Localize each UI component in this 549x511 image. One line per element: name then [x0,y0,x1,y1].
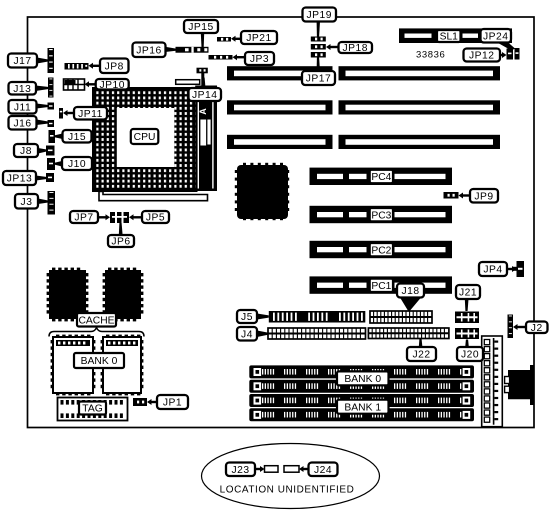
leader JP17 [317,58,320,72]
jumper JP19 strip 3 [311,52,326,58]
svg-text:JP17: JP17 [306,74,331,85]
callout J5 [237,310,257,323]
leader J16 [37,120,48,126]
callout J24 [309,463,338,477]
callout J4 [237,327,257,341]
connector J5 bar [269,311,366,323]
bar below CPU socket [99,192,208,201]
svg-text:JP5: JP5 [146,213,165,224]
cache chip right (black) [103,268,144,322]
svg-text:J20: J20 [461,350,479,361]
jumper JP9 target [444,192,459,199]
leader J10 [55,161,62,167]
callout JP4 [479,262,507,276]
leader JP12 [500,52,507,58]
leader JP3 [233,54,246,60]
PCI slot label PC4 [370,170,393,183]
connector J16 target [48,120,55,127]
svg-text:33836: 33836 [416,50,445,61]
jumper JP12/JP24 target pair [507,48,520,60]
svg-text:J10: J10 [68,159,86,170]
leader JP1 [147,399,157,405]
leader J20 [465,340,469,348]
connector J15 target [49,130,56,143]
svg-text:JP10: JP10 [99,80,124,91]
svg-text:J8: J8 [20,146,32,157]
svg-text:J3: J3 [21,197,33,208]
leader JP19 [317,22,320,37]
power connector [482,336,503,427]
callout JP19 [303,8,337,22]
callout JP13 [3,171,36,185]
svg-text:PC3: PC3 [371,210,391,221]
connector J17 target header [48,48,55,73]
ISA slot row 3 right segment [339,135,501,149]
jumper JP19 strip 1 [311,37,326,42]
leader J24 [299,466,309,472]
svg-text:J22: J22 [412,350,430,361]
connector J24 target [284,466,299,473]
connector JP13 target [46,173,54,182]
TAG chip [58,398,128,421]
svg-text:SL1: SL1 [440,32,459,43]
svg-text:JP16: JP16 [136,45,161,56]
PCI slot PC1 bar [310,276,453,293]
connector J21 header [455,312,479,324]
callout JP14 [189,88,222,101]
svg-text:BANK 1: BANK 1 [344,402,381,413]
connector J11 target [48,103,55,110]
callout JP10 [96,79,129,91]
jumper JP15/JP16 target strip [176,47,209,53]
callout JP5 [142,211,169,224]
SIMM socket row 4 [249,408,474,421]
leader JP24 [497,42,515,50]
TAG label [79,402,106,415]
leader JP11 [63,110,74,116]
CPU label [131,129,159,144]
leader J23b [255,466,265,472]
callout J20 [457,347,483,361]
svg-text:JP21: JP21 [246,33,271,44]
callout JP17 [302,71,335,85]
PCI slot label PC3 [370,208,393,221]
leader JP15 [201,33,204,47]
leader J18 [400,298,421,311]
QFP chip U2 [235,163,289,220]
svg-text:CACHE: CACHE [78,315,114,326]
callout J15 [63,130,92,143]
SRAM chip left (white) [51,335,96,396]
cache chip left (black) [47,268,89,322]
callout JP18 [339,42,373,54]
svg-text:J21: J21 [459,288,477,299]
svg-text:A: A [198,108,208,115]
leader J21 [465,299,469,311]
connector J2 target header [508,315,514,339]
callout JP6 [108,235,134,248]
BANK 0 cache label [74,353,124,368]
svg-text:J5: J5 [241,312,253,323]
leader J22 [419,339,423,347]
svg-text:JP9: JP9 [474,191,493,202]
svg-text:J13: J13 [13,84,31,95]
jumper block JP7/JP5/JP6 target [110,212,129,223]
PCI slot PC2 bar [310,241,453,258]
connector J20 header [455,328,479,339]
jumper JP11 target [59,108,63,119]
SRAM chip right (white) [101,335,144,396]
svg-text:J16: J16 [13,118,31,129]
callout JP11 [74,107,107,120]
callout JP1 [157,395,188,409]
svg-text:J15: J15 [68,132,86,143]
callout JP12 [464,49,501,62]
leader JP16 [165,47,176,52]
leader J11 [37,104,48,109]
svg-text:J23: J23 [231,465,249,476]
svg-text:JP14: JP14 [192,90,217,101]
callout JP21 [241,31,277,44]
callout JP15 [184,20,218,33]
PCI slot PC4 bar [310,168,453,185]
svg-text:CPU: CPU [134,132,156,143]
svg-text:JP24: JP24 [483,31,508,42]
svg-text:JP4: JP4 [483,265,502,276]
leader J3 [38,199,48,205]
svg-text:J2: J2 [531,323,543,334]
leader J13 [36,86,49,92]
svg-text:J24: J24 [314,465,332,476]
SIMM label BANK 1 [337,400,389,414]
keyboard DIN connector [505,365,535,405]
ISA slot row 2 left segment [227,100,333,114]
svg-text:PC4: PC4 [371,172,391,183]
jumper JP10 target grid [64,79,85,90]
svg-text:JP3: JP3 [250,54,269,65]
SIMM label BANK 0 [337,371,389,385]
svg-text:JP13: JP13 [7,174,32,185]
connector J3 target header [48,191,56,215]
SIMM socket row 1 [249,365,474,378]
ISA slot row 1 left segment [227,66,333,80]
PCI slot label PC2 [370,243,393,256]
PCI slot label PC1 [370,279,393,292]
leader JP18 [326,44,339,50]
leader JP13 [36,176,46,181]
jumper JP8 target [65,63,89,70]
callout JP16 [133,43,166,58]
leader JP6 [119,223,123,235]
leader JP7 [98,214,110,220]
leader J4 [257,331,268,338]
svg-text:PC1: PC1 [371,281,391,292]
brace under cache chips [49,328,144,337]
leader JP8 [89,63,101,69]
SIMM socket row 3 [249,394,474,407]
svg-text:J11: J11 [14,102,31,113]
CPU socket (PGA) [93,88,197,191]
svg-text:JP7: JP7 [74,213,93,224]
callout JP8 [100,59,129,74]
jumper target of JP14 [197,68,208,86]
svg-text:JP15: JP15 [188,22,213,33]
svg-text:JP1: JP1 [163,398,182,409]
connector J18 header [370,311,432,323]
svg-text:JP11: JP11 [78,109,103,120]
callout J2 [526,322,548,334]
leader JP5 [129,214,142,220]
board outline [28,17,535,428]
leader JP10 [85,81,96,87]
svg-text:J4: J4 [241,329,253,340]
ISA slot row 2 right segment [339,100,501,114]
leader J23 [255,466,265,472]
svg-text:PC2: PC2 [371,245,391,256]
oscillator above CPU socket [176,80,200,85]
jumper JP21 target strip [217,37,231,42]
leader JP21 [231,36,241,42]
callout J21 [456,285,480,299]
svg-text:JP18: JP18 [343,43,368,54]
svg-text:J18: J18 [401,286,419,297]
PCI slot PC3 bar [310,206,453,223]
svg-text:BANK 0: BANK 0 [344,374,381,385]
connector J10 target [47,158,55,170]
ISA slot row 3 left segment [227,135,333,149]
svg-text:JP8: JP8 [105,61,124,72]
callout JP3 [245,52,274,65]
ellipse location unidentified [202,444,380,509]
svg-text:JP12: JP12 [469,51,494,62]
leader J17 [37,58,48,64]
leader JP4 [507,266,517,272]
svg-text:TAG: TAG [82,404,102,415]
leader J5 [257,314,269,320]
callout J18 [397,284,424,298]
SIMM socket row 2 [249,380,474,393]
svg-text:JP19: JP19 [307,10,332,21]
callout J10 [62,157,92,170]
leader JP14 [202,78,206,89]
jumper JP1 target [133,398,147,406]
jumper JP4 target [513,261,524,277]
svg-text:BANK 0: BANK 0 [81,356,118,367]
leader J24b [299,466,309,472]
callout J13 [9,82,37,95]
leader J15 [55,134,63,140]
CACHE label [77,313,116,327]
VRM module U-A [196,86,217,191]
connector J22 header [368,328,449,339]
callout JP9 [470,189,498,203]
connector J8 target [46,146,55,156]
callout J16 [9,116,37,130]
connector J23 target [265,466,279,473]
connector J4 bar [268,328,366,339]
leader J8 [38,148,46,154]
callout J8 [14,144,38,157]
callout J11 [9,100,37,114]
callout JP24 [481,29,512,43]
leader J2 [513,324,526,330]
jumper JP19 strip 2 [311,44,326,50]
ISA slot row 1 right segment [339,66,501,80]
svg-text:LOCATION UNIDENTIFIED: LOCATION UNIDENTIFIED [220,485,355,496]
callout JP7 [70,211,98,224]
svg-text:JP6: JP6 [111,237,130,248]
leader JP9 [459,193,471,199]
callout J22 [407,347,436,361]
svg-text:J17: J17 [13,56,31,67]
slot label SL1 [437,30,461,43]
jumper JP3 target strip [209,55,233,60]
callout J17 [8,54,37,68]
callout J3 [15,194,38,209]
slot SL1 bar [399,28,512,43]
connector J13 target header [48,78,54,98]
callout J23 [226,463,255,477]
